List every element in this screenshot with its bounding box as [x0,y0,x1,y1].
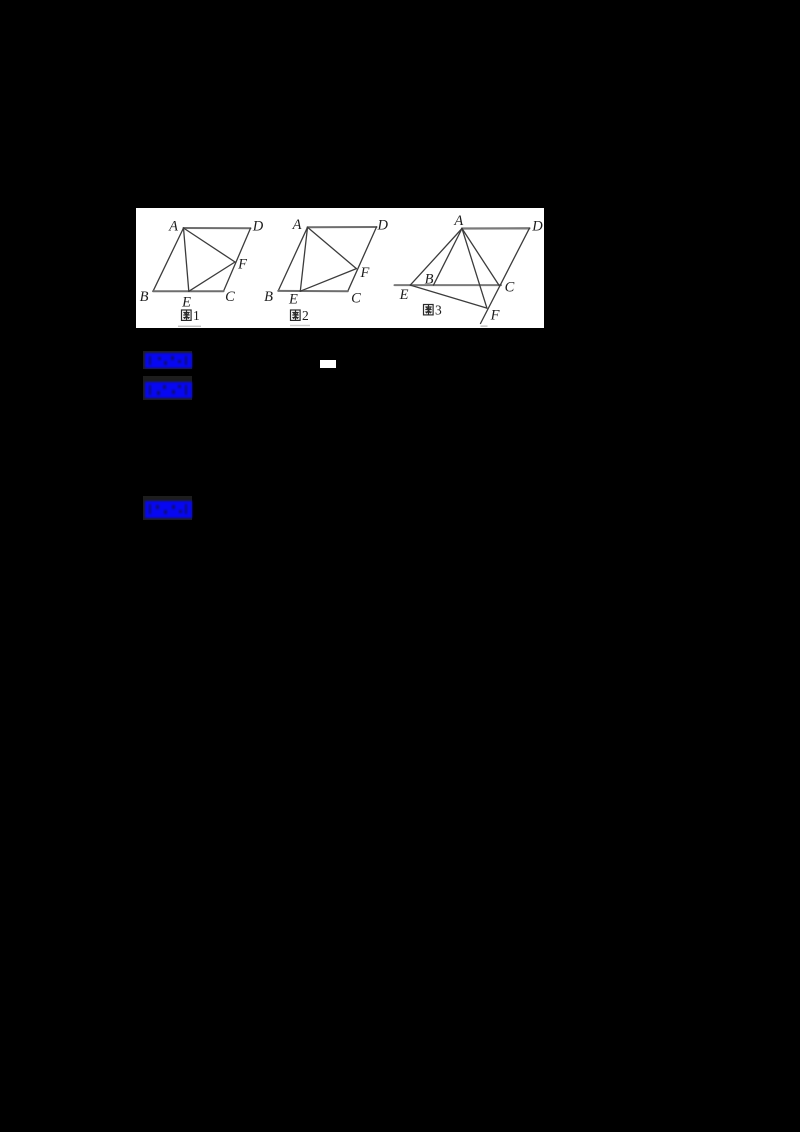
figure 3 segment AE [410,229,462,286]
faint underline under 图1 [178,326,201,327]
svg-text:D: D [531,219,543,235]
figure 1 side BC [153,290,224,292]
svg-text:A: A [453,213,463,229]
svg-text:D: D [252,219,264,235]
figure 3 line ECB horizontal [395,284,502,286]
svg-text:D: D [376,218,388,234]
figure 1 cevian AF [184,228,236,262]
figure 3 caption 图3 [424,305,434,315]
figure 2 side AD [308,226,377,228]
svg-text:C: C [225,289,235,305]
svg-text:F: F [237,257,247,273]
figure 2 side DC [348,227,377,291]
figure 3 line D-C-F extended [481,228,530,323]
figure 1 side AB [153,228,184,291]
figure 1 side DC [224,228,251,291]
svg-text:F: F [490,308,500,324]
white answer dash [320,360,336,368]
figure 3 side AD [462,227,529,229]
svg-text:3: 3 [435,303,442,318]
blue tag 1 考点 box [143,351,192,369]
figure 2 caption 图2 [291,310,301,320]
svg-text:B: B [264,289,273,305]
figure 3 segment AB [434,229,463,286]
figure 2 cevian AE [300,227,307,291]
figure 2 side BC [278,290,348,292]
figure 1 parallelogram ABCD side AD [184,227,251,229]
figure 1 cevian AE [184,228,189,291]
blue tag 3 解答 box [143,496,192,520]
blue tag 1 text blob [145,353,192,368]
figure 1 segment EF [189,262,235,291]
blue tag 3 text blob [145,501,192,518]
faint dash below F figure 3 [481,325,488,327]
svg-text:B: B [425,271,434,287]
svg-text:C: C [351,291,361,307]
faint underline under 图2 [290,325,310,326]
svg-text:B: B [140,289,149,305]
svg-text:E: E [288,292,298,308]
svg-text:E: E [181,295,191,311]
svg-text:A: A [168,219,178,235]
svg-text:F: F [359,265,369,281]
svg-text:2: 2 [302,308,309,323]
figure 1 caption 图1 [182,310,192,320]
figure 3 segment AF [462,229,487,309]
figure 3 segment AC [462,229,499,286]
blue tag 2 text blob [145,382,192,398]
svg-text:C: C [505,280,515,296]
svg-text:E: E [399,287,409,303]
white figure panel [136,208,544,328]
figure 3 segment EF [410,285,487,308]
figure 2 cevian AF [308,227,357,268]
figure 2 side AB [278,227,307,291]
blue tag 2 分析 box [143,376,192,400]
svg-text:1: 1 [193,308,200,323]
figure 2 segment EF [300,269,356,292]
svg-text:A: A [292,217,302,233]
